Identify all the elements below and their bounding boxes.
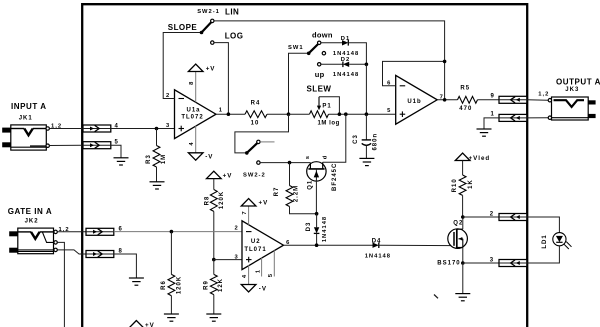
svg-text:R10: R10 xyxy=(452,178,458,192)
wire R9 to ground xyxy=(213,295,215,314)
svg-text:8: 8 xyxy=(189,81,195,85)
node D3 junction xyxy=(315,243,319,247)
switch SW1 throw up xyxy=(318,63,321,66)
label +V (R8) xyxy=(223,172,233,179)
resistor R10 xyxy=(459,175,466,195)
svg-text:1: 1 xyxy=(491,111,495,117)
label OUTPUT A xyxy=(556,78,600,87)
U2 +V pin line (pin 7) xyxy=(248,206,250,225)
label pin 2 xyxy=(166,93,170,99)
svg-text:1N4148: 1N4148 xyxy=(333,72,359,78)
power -V (U1a) xyxy=(188,153,203,160)
Q2 channel xyxy=(456,229,458,248)
svg-text:3: 3 xyxy=(490,258,494,264)
svg-text:3: 3 xyxy=(166,123,170,129)
label U1b xyxy=(407,99,421,105)
ground (R9) xyxy=(206,314,221,321)
switch SW2-1 throw LOG xyxy=(211,41,214,44)
svg-text:2.2M: 2.2M xyxy=(293,185,299,202)
resistor R3 xyxy=(153,146,160,168)
diode D1 xyxy=(342,40,348,46)
svg-text:TL072: TL072 xyxy=(181,115,203,121)
connector pin 5 xyxy=(83,142,111,149)
wire connector 9 to JK3 tip xyxy=(527,99,548,101)
wire vertical to slew line xyxy=(365,64,367,114)
svg-text:R7: R7 xyxy=(274,187,280,197)
node Q2 source junction xyxy=(461,261,465,265)
label R7 xyxy=(274,187,280,197)
svg-text:1N4148: 1N4148 xyxy=(365,253,391,259)
wire LIN to U1b feedback xyxy=(214,21,445,62)
wire pin3 junction to R3 xyxy=(156,129,158,146)
svg-text:JK3: JK3 xyxy=(565,87,579,93)
wire R8 to pin3 node xyxy=(213,211,215,259)
label LOG xyxy=(225,32,244,41)
U2 plus sign xyxy=(246,257,252,263)
label R4 xyxy=(251,101,261,107)
switch SW1 lever xyxy=(307,44,318,55)
label 2.2M xyxy=(293,185,299,202)
label JK3 xyxy=(565,87,579,93)
svg-text:-V: -V xyxy=(259,286,267,293)
label SW2-2 xyxy=(243,173,266,179)
svg-text:120K: 120K xyxy=(219,191,225,209)
svg-text:1K: 1K xyxy=(468,179,474,189)
label D2 xyxy=(341,57,350,63)
wire source to connector 3 xyxy=(463,262,499,264)
svg-text:Q2: Q2 xyxy=(453,221,463,227)
label down xyxy=(312,31,333,40)
wire JK1 tip to connector 4 xyxy=(49,128,83,130)
label R5 xyxy=(460,86,470,92)
node R3/pin3 junction xyxy=(155,127,159,131)
diode D4 xyxy=(373,242,379,248)
label TL071 xyxy=(244,247,266,253)
resistor R9 xyxy=(210,274,217,294)
label pin 3 xyxy=(166,123,170,129)
svg-text:680n: 680n xyxy=(372,133,378,151)
svg-text:JK2: JK2 xyxy=(25,218,39,224)
connector pin 9 xyxy=(499,96,527,103)
svg-text:1N4148: 1N4148 xyxy=(322,216,328,242)
wire R4 to main junction xyxy=(267,113,289,115)
connector pin 1 xyxy=(499,114,527,121)
svg-text:5: 5 xyxy=(387,108,391,114)
svg-text:U1b: U1b xyxy=(407,99,421,105)
svg-text:LIN: LIN xyxy=(225,8,239,17)
potentiometer P1 xyxy=(310,111,329,118)
label pin 4 (U1a) xyxy=(189,141,195,145)
svg-text:LD1: LD1 xyxy=(542,234,548,248)
switch SW2-2 throw NC xyxy=(257,140,260,143)
svg-text:up: up xyxy=(315,70,325,79)
node Q1 gate junction xyxy=(315,212,319,216)
switch SW2-1 lever xyxy=(200,22,212,34)
svg-text:7: 7 xyxy=(242,210,248,214)
label pin 7 xyxy=(440,94,444,100)
svg-text:470: 470 xyxy=(459,106,472,112)
svg-text:C3: C3 xyxy=(353,134,359,144)
label +V (bottom) xyxy=(145,322,155,327)
label TL072 xyxy=(181,115,203,121)
svg-text:9: 9 xyxy=(491,93,495,99)
label 120K (R6) xyxy=(177,276,183,294)
label SLOPE xyxy=(168,23,198,32)
label GATE IN A xyxy=(8,207,53,216)
svg-text:s: s xyxy=(305,155,311,159)
wire R5 to connector 9 xyxy=(478,99,500,101)
resistor R4 xyxy=(245,111,267,118)
label SW2-1 xyxy=(197,9,220,15)
label 1N4148 (D1) xyxy=(333,51,359,57)
power +V (U2) xyxy=(241,199,256,206)
svg-text:D4: D4 xyxy=(372,238,382,244)
label pin 7 (U2) xyxy=(242,210,248,214)
U2 pin 1 stub xyxy=(261,258,263,277)
U1b feedback wire xyxy=(383,61,445,99)
U1a +V pin line (pin 8) xyxy=(195,72,197,103)
svg-text:4: 4 xyxy=(189,141,195,145)
module border frame xyxy=(82,4,527,327)
label BS170 xyxy=(437,260,460,266)
svg-text:D2: D2 xyxy=(341,57,350,63)
svg-text:R9: R9 xyxy=(204,280,210,290)
svg-text:GATE IN A: GATE IN A xyxy=(8,207,53,216)
wire Q2 source to ground xyxy=(462,263,464,294)
node Q2 drain junction xyxy=(461,215,465,219)
label JK1 xyxy=(19,116,33,122)
wire LOG to U1a output xyxy=(214,43,228,115)
svg-text:d: d xyxy=(323,155,329,160)
wire drain to connector 2 xyxy=(463,216,499,218)
label 9 xyxy=(491,93,495,99)
switch SW2-2 lever xyxy=(245,143,257,155)
label pin 1 xyxy=(219,108,223,114)
wire SW2-1 pole to U1a pin2 xyxy=(163,33,201,99)
svg-text:P1: P1 xyxy=(322,103,331,109)
label 680n xyxy=(372,133,378,151)
switch SW2-2 throw xyxy=(257,161,260,164)
power +V (U1a) xyxy=(188,64,203,71)
label LD1 xyxy=(542,234,548,248)
label pin 5 (U1b) xyxy=(387,108,391,114)
label R3 xyxy=(146,154,152,164)
svg-text:D3: D3 xyxy=(306,222,312,232)
svg-text:JK1: JK1 xyxy=(19,116,33,122)
output jack JK3 xyxy=(548,97,595,120)
Q1 source lead xyxy=(309,163,311,169)
svg-text:R5: R5 xyxy=(460,86,470,92)
connector pin 4 xyxy=(83,125,111,132)
svg-text:1: 1 xyxy=(219,108,223,114)
wire JK2 switch contact down xyxy=(57,242,64,327)
svg-text:SW1: SW1 xyxy=(288,45,304,51)
label pin 6 (U2) xyxy=(286,240,290,246)
U2 -V pin line (pin 4) xyxy=(248,265,250,284)
label U2 xyxy=(251,239,261,245)
node feedback/LIN junction xyxy=(443,60,447,64)
wire Q1 drain to slew line xyxy=(323,114,346,162)
wire D3 to U2 output xyxy=(316,233,318,245)
wire R7 to gate node xyxy=(290,207,317,214)
label SLEW xyxy=(307,85,332,94)
wire P1 to U1b pin5 xyxy=(329,113,396,115)
label 4 xyxy=(115,124,119,130)
svg-text:1M log: 1M log xyxy=(318,121,340,127)
U1b plus sign xyxy=(400,111,406,117)
U1a -V pin line (pin 4) xyxy=(195,126,197,153)
switch SW1 throw down xyxy=(318,41,321,44)
wire pin3 node to U2 xyxy=(214,259,242,261)
wire D2 to vertical xyxy=(349,63,366,65)
label 1N4148 (D2) xyxy=(333,72,359,78)
svg-text:U1a: U1a xyxy=(186,107,200,113)
label -V (U2) xyxy=(259,286,267,293)
U1a minus sign xyxy=(179,98,185,100)
label 10 xyxy=(251,121,260,127)
label SW1 xyxy=(288,45,304,51)
Q2 body arrow xyxy=(459,237,463,248)
label 1,2 (JK3) xyxy=(538,91,549,97)
svg-text:+V: +V xyxy=(259,199,269,206)
label P1 xyxy=(322,103,331,109)
wire D1 to vertical xyxy=(348,43,366,65)
resistor R5 xyxy=(458,96,478,103)
node U1a output / LOG xyxy=(227,112,231,116)
svg-text:+V: +V xyxy=(223,172,233,179)
svg-text:120K: 120K xyxy=(177,276,183,294)
wire +V to R8 xyxy=(213,179,215,190)
node U1b output junction xyxy=(443,98,447,102)
connector pin 2 xyxy=(499,214,527,221)
wire C3 to ground xyxy=(365,145,367,158)
op-amp U1a xyxy=(175,90,217,139)
svg-text:2: 2 xyxy=(235,226,239,232)
label Q1 xyxy=(308,180,314,190)
LED LD1 xyxy=(553,233,572,249)
ground (connector 1) xyxy=(477,129,492,136)
label pin 1 (U2) xyxy=(255,269,261,273)
diode D3 xyxy=(314,227,320,233)
svg-text:BF245C: BF245C xyxy=(332,163,338,191)
resistor R6 xyxy=(168,274,175,295)
label 8 xyxy=(119,248,123,254)
label pin 2 (U2) xyxy=(235,226,239,232)
P1 wiper xyxy=(317,97,340,114)
label JK2 xyxy=(25,218,39,224)
svg-text:SW2-1: SW2-1 xyxy=(197,9,220,15)
label s xyxy=(305,155,311,159)
wire up to D2 xyxy=(321,63,343,65)
wire connector 1 to ground xyxy=(484,118,499,129)
resistor R8 xyxy=(210,190,217,212)
svg-text:SLOPE: SLOPE xyxy=(168,23,198,32)
label +V (U1a) xyxy=(206,66,216,73)
ground (C3) xyxy=(359,158,374,165)
wire LED to connector 3 xyxy=(527,246,560,263)
transistor Q1 circle xyxy=(307,162,326,181)
U2 minus sign xyxy=(246,231,252,233)
Q1 gate line xyxy=(315,169,317,214)
svg-text:1M: 1M xyxy=(161,154,167,164)
ground (R6) xyxy=(164,314,179,321)
transistor Q2 circle xyxy=(448,229,468,249)
label pin 4 (U2) xyxy=(242,274,248,278)
op-amp U2 xyxy=(242,221,284,270)
label 1N4148 (D4) xyxy=(365,253,391,259)
svg-text:SW2-2: SW2-2 xyxy=(243,173,266,179)
Q1 drain lead xyxy=(322,162,324,169)
Q1 gate bar xyxy=(308,168,324,170)
Q2 gate plate xyxy=(453,232,455,246)
label 5 xyxy=(115,140,119,146)
wire main junction to SW2-2 pole xyxy=(235,114,289,153)
svg-text:Q1: Q1 xyxy=(308,180,314,190)
ground (connector 8) xyxy=(129,278,144,285)
Q1 gate arrow xyxy=(314,171,319,178)
switch SW2-1 throw LIN xyxy=(211,19,214,22)
wire SW2-2 to Q1 source xyxy=(260,162,310,164)
svg-text:R3: R3 xyxy=(146,154,152,164)
power +V (bottom partial) xyxy=(129,321,144,327)
label pin 8 xyxy=(189,81,195,85)
label 6 xyxy=(119,226,123,232)
label 2 (connector) xyxy=(490,212,494,218)
wire C3 top xyxy=(365,114,367,140)
label 1K xyxy=(468,179,474,189)
node Q1 drain junction xyxy=(344,112,348,116)
node U2 pin3 junction xyxy=(212,258,216,262)
svg-text:1: 1 xyxy=(255,269,261,273)
U1b minus sign xyxy=(400,85,406,87)
op-amp U1b xyxy=(396,75,438,124)
wire D4 to Q2 gate xyxy=(379,244,454,246)
label INPUT A xyxy=(11,102,47,111)
svg-text:INPUT A: INPUT A xyxy=(11,102,47,111)
wire junction to P1 xyxy=(289,113,310,115)
wire SW1 pole to main junction xyxy=(289,53,309,114)
label pin 6 xyxy=(387,81,391,87)
svg-text:BS170: BS170 xyxy=(437,260,460,266)
resistor R7 xyxy=(286,186,293,207)
label 1 (connector) xyxy=(491,111,495,117)
wire down to D1 xyxy=(321,42,342,44)
Q2 drain tap xyxy=(457,217,463,229)
svg-text:SLEW: SLEW xyxy=(307,85,332,94)
svg-text:8: 8 xyxy=(119,248,123,254)
wire U2 output xyxy=(284,244,373,246)
label BF245C xyxy=(332,163,338,191)
node D2/vertical junction xyxy=(365,63,369,67)
svg-text:D1: D1 xyxy=(341,36,350,42)
label 1,2 (JK1 pins) xyxy=(51,124,62,130)
wire connector 5 to ground xyxy=(111,145,121,158)
wire connector 1 to JK3 sleeve xyxy=(527,117,548,119)
svg-text:down: down xyxy=(312,31,333,40)
node R6 junction xyxy=(170,230,174,234)
svg-text:U2: U2 xyxy=(251,239,261,245)
label 1N4148 (D3) xyxy=(322,216,328,242)
power -V (U2) xyxy=(241,285,256,292)
wire U1b output xyxy=(437,99,457,101)
SW2-2 NC stub wire xyxy=(260,141,274,143)
label pin 5 (U2) xyxy=(268,273,274,277)
label +V (U2) xyxy=(259,199,269,206)
wire connector 2 to LED xyxy=(527,217,560,233)
label -V (U1a) xyxy=(205,153,213,160)
label up xyxy=(315,70,325,79)
svg-text:4: 4 xyxy=(242,274,248,278)
node P1 wiper junction xyxy=(338,112,342,116)
label 1M log xyxy=(318,121,340,127)
wire R6 to ground xyxy=(170,296,172,314)
label D4 xyxy=(372,238,382,244)
U2 pin 5 stub xyxy=(273,250,275,276)
Q2 source tap xyxy=(457,248,463,264)
ground (R3) xyxy=(150,182,165,189)
svg-text:R4: R4 xyxy=(251,101,261,107)
svg-text:1N4148: 1N4148 xyxy=(333,51,359,57)
label LIN xyxy=(225,8,239,17)
switch SW1 throw mid xyxy=(322,52,325,55)
wire connector 8 to ground xyxy=(114,254,137,278)
svg-text:OUTPUT A: OUTPUT A xyxy=(556,78,600,87)
node R7 top junction xyxy=(288,161,292,165)
power +V (R8) xyxy=(207,171,222,178)
svg-text:+Vled: +Vled xyxy=(469,155,491,162)
label d xyxy=(323,155,329,160)
svg-text:-V: -V xyxy=(205,153,213,160)
svg-text:5: 5 xyxy=(268,273,274,277)
node main junction xyxy=(287,112,291,116)
wire connector 6 to U2 pin2 xyxy=(114,231,242,233)
label D1 xyxy=(341,36,350,42)
label 1M xyxy=(161,154,167,164)
gate jack JK2 xyxy=(9,228,57,254)
connector pin 3 xyxy=(499,260,527,267)
label pin 3 (U2) xyxy=(235,254,239,260)
label +Vled xyxy=(469,155,491,162)
wire JK1 sleeve to connector 5 xyxy=(49,144,83,146)
connector pin 6 xyxy=(86,228,114,235)
label R9 xyxy=(204,280,210,290)
svg-text:TL071: TL071 xyxy=(244,247,266,253)
svg-text:1,2: 1,2 xyxy=(538,91,549,97)
wire R7 top xyxy=(289,163,291,186)
svg-text:+V: +V xyxy=(145,322,155,327)
label R10 xyxy=(452,178,458,192)
label 470 xyxy=(459,106,472,112)
wire R3 to ground xyxy=(156,167,158,182)
label U1a xyxy=(186,107,200,113)
label 120K (R8) xyxy=(219,191,225,209)
input jack JK1 xyxy=(2,125,49,150)
wire U1a output xyxy=(216,113,245,115)
wire +Vled to R10 xyxy=(462,161,464,176)
label C3 xyxy=(353,134,359,144)
wire R10 to Q2 drain xyxy=(462,195,464,217)
node C3 junction xyxy=(365,112,369,116)
svg-text:+V: +V xyxy=(206,66,216,73)
stray tick mark xyxy=(434,295,438,299)
svg-text:10: 10 xyxy=(251,121,260,127)
ground (connector 5) xyxy=(114,158,129,165)
wire connector 4 to U1a pin 3 xyxy=(111,128,175,130)
connector pin 8 xyxy=(86,251,114,258)
capacitor C3 xyxy=(362,140,371,146)
power +Vled xyxy=(455,153,470,160)
label 1,2 (JK2) xyxy=(59,227,70,233)
